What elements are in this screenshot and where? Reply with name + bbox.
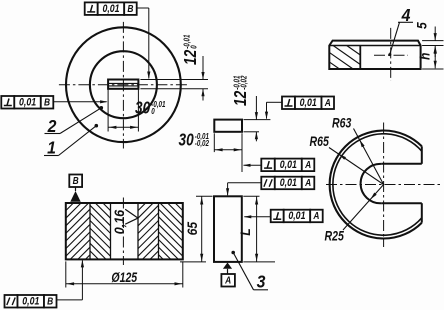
svg-text:0,01: 0,01 xyxy=(280,159,297,171)
svg-text:B: B xyxy=(127,3,133,15)
svg-text:1: 1 xyxy=(47,137,56,157)
svg-text:0,16: 0,16 xyxy=(111,209,127,234)
svg-text:Ø125: Ø125 xyxy=(111,270,137,286)
svg-text:0,01: 0,01 xyxy=(19,97,36,109)
svg-text:L: L xyxy=(237,228,253,236)
svg-text:5: 5 xyxy=(414,21,430,29)
svg-text:3: 3 xyxy=(257,272,266,292)
svg-text:0,01: 0,01 xyxy=(288,210,305,222)
svg-text:R25: R25 xyxy=(325,228,345,244)
svg-text:A: A xyxy=(312,210,319,222)
svg-text:30: 30 xyxy=(135,99,150,118)
svg-text:A: A xyxy=(304,177,311,189)
svg-text:0,01: 0,01 xyxy=(22,296,39,308)
svg-text:R63: R63 xyxy=(332,115,352,131)
svg-text:0,01: 0,01 xyxy=(102,3,119,15)
svg-text:B: B xyxy=(44,97,50,109)
svg-text:30: 30 xyxy=(179,131,194,150)
svg-text:0,01: 0,01 xyxy=(280,177,297,189)
svg-text:0: 0 xyxy=(151,107,154,116)
svg-text:A: A xyxy=(224,275,231,287)
svg-text:A: A xyxy=(324,97,331,109)
svg-text:h: h xyxy=(417,52,433,60)
svg-text:0,01: 0,01 xyxy=(300,97,317,109)
svg-text:B: B xyxy=(47,296,53,308)
svg-text:0: 0 xyxy=(190,45,199,48)
svg-text:-0,02: -0,02 xyxy=(240,75,249,89)
svg-text:65: 65 xyxy=(184,221,200,235)
svg-text:A: A xyxy=(304,159,311,171)
svg-text:12: 12 xyxy=(182,50,201,65)
svg-text:R65: R65 xyxy=(310,134,330,150)
svg-text:B: B xyxy=(73,175,79,187)
svg-text:-0,02: -0,02 xyxy=(195,139,209,148)
svg-text:12: 12 xyxy=(232,91,251,106)
